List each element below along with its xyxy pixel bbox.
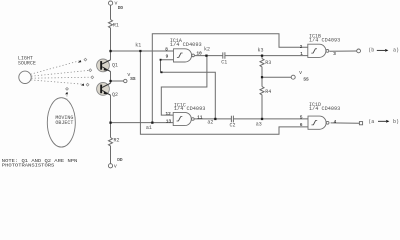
svg-text:Q2: Q2 [112,92,118,98]
svg-text:PHOTOTRANSISTORS: PHOTOTRANSISTORS [2,162,55,168]
svg-text:13: 13 [166,119,172,124]
svg-text:(a: (a [368,119,374,125]
svg-text:V: V [114,163,117,169]
svg-text:1: 1 [300,52,303,57]
svg-text:10: 10 [197,51,203,56]
svg-text:SOURCE: SOURCE [18,61,36,67]
svg-text:6: 6 [300,123,303,128]
svg-text:1/4 CD4093: 1/4 CD4093 [309,106,340,112]
svg-text:k3: k3 [258,48,264,54]
svg-text:1/4 CD4093: 1/4 CD4093 [170,42,202,48]
svg-text:DD: DD [118,6,124,11]
svg-text:a2: a2 [207,120,213,126]
svg-text:1/4 CD4093: 1/4 CD4093 [309,37,340,43]
svg-text:12: 12 [166,112,172,117]
svg-text:OBJECT: OBJECT [55,120,73,126]
svg-text:a1: a1 [146,125,152,131]
svg-text:k2: k2 [204,47,210,53]
svg-text:a): a) [393,47,399,53]
svg-text:DD: DD [117,158,123,163]
svg-text:SS: SS [130,77,136,82]
svg-text:(b: (b [368,47,374,53]
svg-text:R4: R4 [265,89,271,95]
svg-text:9: 9 [166,55,169,60]
svg-text:11: 11 [197,116,203,121]
svg-text:1/4 CD4093: 1/4 CD4093 [174,106,206,112]
svg-text:R3: R3 [265,60,271,66]
svg-text:b): b) [393,119,399,125]
svg-text:R2: R2 [114,138,120,144]
svg-text:C1: C1 [221,59,227,65]
svg-text:5: 5 [300,116,303,121]
svg-text:C2: C2 [230,122,236,128]
svg-text:Q1: Q1 [112,62,118,68]
svg-text:3: 3 [333,52,336,57]
svg-text:8: 8 [165,47,168,52]
svg-text:4: 4 [334,120,337,125]
svg-text:V: V [299,70,302,76]
svg-text:SS: SS [303,78,309,83]
svg-text:2: 2 [300,45,303,50]
svg-text:a3: a3 [256,122,262,128]
svg-text:R1: R1 [113,23,119,29]
svg-text:k1: k1 [135,43,141,49]
